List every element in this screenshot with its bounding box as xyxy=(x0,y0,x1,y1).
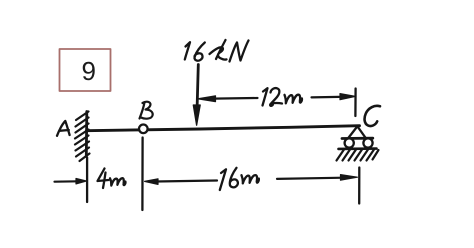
dim line 16m right arrow xyxy=(341,175,358,181)
extension tick below C xyxy=(358,168,360,204)
dim line 12m left arrow xyxy=(198,96,216,102)
label 12m : m xyxy=(285,95,302,104)
wall support at A xyxy=(85,112,88,157)
label 16kN : k xyxy=(210,40,227,60)
label 4m : m xyxy=(110,178,125,185)
hinge circle at B xyxy=(139,125,148,134)
bottom left stub line xyxy=(55,180,79,183)
label 4m : 4 xyxy=(98,169,109,189)
label 16m : m xyxy=(242,175,259,183)
dim line 16m right segment xyxy=(277,178,344,179)
dim line 16m left arrow xyxy=(145,179,158,185)
label 16m : 6 xyxy=(230,168,238,188)
beam AC xyxy=(87,126,360,131)
ground line at C xyxy=(339,147,377,150)
wall hatching xyxy=(76,112,89,121)
tick above C xyxy=(354,89,357,117)
label 16kN : 6 xyxy=(195,43,205,61)
roller base plate xyxy=(342,137,373,140)
roller support triangle at C xyxy=(348,127,365,139)
label C xyxy=(365,106,380,126)
label B xyxy=(140,102,153,119)
extension tick below A xyxy=(86,158,88,203)
dim line 16m left segment xyxy=(156,181,217,182)
svg-text:9: 9 xyxy=(82,56,96,86)
label 16m : 1 xyxy=(220,169,226,190)
dim line 12m left segment xyxy=(214,97,258,100)
force arrowhead xyxy=(193,105,200,125)
dim line 12m right segment xyxy=(312,96,340,99)
label 16kN : N xyxy=(230,41,249,62)
bottom left stub arrow xyxy=(76,179,86,184)
roller wheel right xyxy=(363,138,372,147)
label 16kN : 1 xyxy=(185,42,190,59)
extension tick below B xyxy=(141,138,144,211)
dim line 12m right arrow xyxy=(340,94,355,100)
label A xyxy=(57,121,70,136)
label 12m : 1 xyxy=(263,88,268,105)
roller wheel left xyxy=(345,138,354,147)
label 12m : 2 xyxy=(270,88,282,106)
problem number box xyxy=(60,49,111,91)
force 16kN arrow line xyxy=(197,65,198,112)
ground hatching at C xyxy=(337,150,345,161)
